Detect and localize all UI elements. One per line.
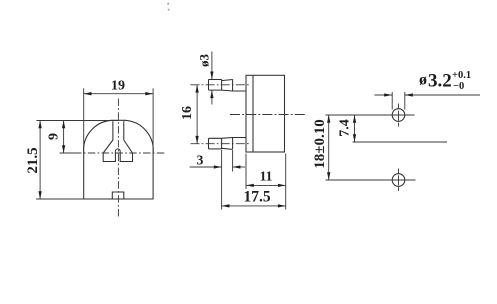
arrow dia3.2 right-pointing <box>384 93 392 96</box>
top pin left cap <box>208 80 210 91</box>
top hole horizontal centerline <box>326 114 415 116</box>
svg-text:16: 16 <box>180 106 195 120</box>
arrow dim11 right <box>278 184 286 187</box>
dim 19 right extension <box>152 88 154 153</box>
bottom pin top edge <box>209 137 247 140</box>
arrow dim3 right-pointing <box>214 165 222 168</box>
faint speck artifact top <box>167 3 169 5</box>
top pin crimp top slant <box>222 80 233 81</box>
extension top of dome <box>37 120 119 122</box>
front view body outline <box>84 153 153 199</box>
svg-text:ø3: ø3 <box>197 54 212 68</box>
top pin centerline <box>191 84 250 86</box>
svg-text:ø: ø <box>419 72 427 89</box>
arrow dim18 top <box>327 115 330 123</box>
front view horizontal centerline <box>74 152 166 154</box>
left foot outline <box>103 151 115 161</box>
arrow dim17.5 left <box>222 204 230 207</box>
arrow dim9 top <box>62 121 65 129</box>
arrow dim16 top <box>195 85 198 93</box>
arrow dim11 left <box>246 184 254 187</box>
dim 16 line <box>196 85 198 144</box>
svg-text:17.5: 17.5 <box>243 189 270 206</box>
dim 17.5 line <box>222 205 286 207</box>
front view dome arc <box>84 120 154 153</box>
bottom hole rectangle <box>112 192 124 199</box>
svg-text:19: 19 <box>111 79 125 94</box>
sound slot right flare <box>124 140 133 153</box>
sound slot left wall <box>112 121 114 140</box>
svg-text:3: 3 <box>197 153 204 168</box>
svg-text:7.4: 7.4 <box>338 119 353 137</box>
extension body right lower <box>285 154 287 210</box>
side view flange line <box>252 75 254 152</box>
bottom pin left cap <box>208 138 210 149</box>
dia3.2 extension left <box>391 92 393 110</box>
pcb top hole circle <box>392 109 405 122</box>
svg-text:11: 11 <box>260 169 273 184</box>
arrow dim21.5 top <box>38 121 41 129</box>
bottom pin crimp right vertical <box>232 138 234 150</box>
notch rounded top <box>115 149 120 151</box>
arrow dia3.2 left-pointing <box>405 93 413 96</box>
arrow dim17.5 right <box>278 204 286 207</box>
arrow dia3 up <box>210 90 213 98</box>
arrow dim3 left-pointing <box>233 165 241 168</box>
side view body horizontal centerline <box>230 114 306 116</box>
top pin bottom edge <box>209 89 247 92</box>
dim 7.4 line <box>354 115 356 142</box>
pcb bottom hole circle <box>392 174 405 187</box>
dim 21.5 line <box>39 121 41 200</box>
arrow dim19 right <box>145 92 153 95</box>
faint speck artifact lower <box>168 9 170 11</box>
arrow dim9 bottom <box>62 145 65 153</box>
dia3 leader below <box>211 91 213 105</box>
dim 9 line <box>63 121 65 154</box>
svg-text:−0: −0 <box>453 81 464 92</box>
top pin crimp left vertical <box>221 80 223 91</box>
extension body left lower <box>245 154 247 190</box>
bottom pin crimp left vertical <box>221 138 223 149</box>
top pin crimp right vertical <box>232 79 234 91</box>
arrow dim18 bottom <box>327 172 330 180</box>
front view vertical centerline <box>117 99 119 219</box>
arrow dim7.4 bottom <box>353 134 356 142</box>
dim 3 tail right <box>233 166 245 168</box>
arrow dim21.5 bottom <box>38 191 41 199</box>
dia3.2 arrow tail left <box>375 94 393 96</box>
sound slot left flare <box>103 140 113 153</box>
arrow dim16 bottom <box>195 136 198 144</box>
reference line 7.4 bottom <box>353 141 448 143</box>
dia3.2 arrow tail right <box>405 94 480 96</box>
extension center left <box>60 152 77 154</box>
top pin top edge <box>209 79 222 81</box>
dim 11 line <box>246 184 286 186</box>
arrow dim19 left <box>84 92 92 95</box>
dia3.2 extension right <box>404 92 406 110</box>
svg-text:18±0.10: 18±0.10 <box>312 119 328 168</box>
right foot outline <box>120 151 132 161</box>
bottom pin centerline <box>191 143 250 145</box>
svg-text:21.5: 21.5 <box>25 147 41 173</box>
extension crimp right <box>232 150 234 172</box>
bottom hole horizontal centerline <box>326 179 416 181</box>
dim 18 line <box>328 115 330 180</box>
arrow dia3 down <box>210 72 213 80</box>
svg-text:9: 9 <box>47 133 62 140</box>
side view body rectangle <box>246 75 285 152</box>
extension crimp left <box>221 150 223 210</box>
dim 19 line <box>84 93 153 95</box>
svg-text:3.2: 3.2 <box>428 71 452 92</box>
top hole vertical centerline <box>398 104 400 127</box>
svg-text:+0.1: +0.1 <box>452 70 471 81</box>
bottom hole vertical centerline <box>398 169 400 192</box>
dim 19 left extension <box>83 88 85 153</box>
extension bottom of body <box>36 198 84 200</box>
dim 3 line left <box>190 166 222 168</box>
sound slot right wall <box>123 121 125 140</box>
bottom pin crimp bottom slant <box>222 148 233 149</box>
dia3 leader above <box>211 52 213 80</box>
arrow dim7.4 top <box>353 115 356 123</box>
bottom pin bottom edge <box>209 148 222 150</box>
